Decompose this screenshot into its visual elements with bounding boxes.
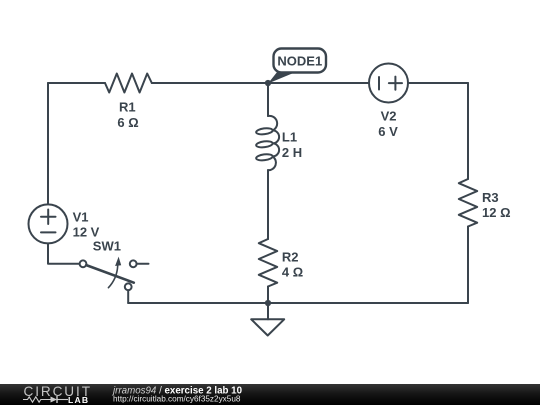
wire left upper [47, 83, 49, 204]
inductor L1 [256, 116, 302, 170]
wire R2 to bottom [267, 287, 269, 304]
voltage source V2 [369, 64, 408, 140]
svg-text:2 H: 2 H [282, 145, 302, 160]
switch SW1 [80, 239, 149, 291]
svg-text:V1: V1 [73, 210, 89, 225]
wire bottom [128, 302, 468, 304]
wire top left [48, 82, 105, 84]
svg-text:12 Ω: 12 Ω [482, 205, 511, 220]
svg-text:http://circuitlab.com/cy6f35z2: http://circuitlab.com/cy6f35z2yx5u8 [113, 395, 241, 404]
ground [251, 303, 284, 336]
voltage source V1 [29, 204, 100, 243]
svg-text:R1: R1 [119, 99, 136, 114]
wire L1 to R2 [267, 170, 269, 239]
CircuitLab logo [23, 384, 91, 405]
resistor R3 [459, 179, 511, 227]
svg-text:6 V: 6 V [378, 124, 398, 139]
wire right upper [467, 83, 469, 179]
svg-text:SW1: SW1 [93, 239, 121, 254]
wire top middle [152, 82, 368, 84]
wire node to L1 [267, 83, 269, 116]
wire right lower [467, 227, 469, 304]
resistor R1 [105, 74, 152, 130]
svg-text:4 Ω: 4 Ω [282, 265, 303, 280]
svg-text:LAB: LAB [68, 395, 89, 405]
wire top right [409, 82, 468, 84]
footer bar [0, 384, 540, 405]
footer text [111, 385, 243, 403]
resistor R2 [259, 239, 303, 287]
wire left lower [48, 244, 80, 264]
junction bottom node [265, 300, 271, 306]
svg-text:12 V: 12 V [73, 225, 100, 240]
wire switch to bottom [127, 290, 129, 303]
svg-text:R2: R2 [282, 249, 299, 264]
svg-text:V2: V2 [381, 109, 397, 124]
node NODE1 [265, 49, 326, 87]
svg-text:L1: L1 [282, 129, 297, 144]
svg-text:R3: R3 [482, 190, 499, 205]
svg-text:NODE1: NODE1 [277, 53, 322, 68]
svg-text:6 Ω: 6 Ω [117, 115, 138, 130]
